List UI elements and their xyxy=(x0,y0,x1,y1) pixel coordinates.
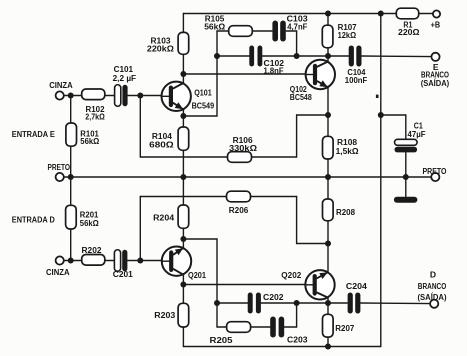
wire Q101 base to R106 vertical xyxy=(139,96,141,158)
wire Q101 collector to Q102 base xyxy=(183,73,306,75)
node ground rail C1 junction xyxy=(403,174,409,180)
resistor R104 xyxy=(178,127,189,150)
svg-text:R205: R205 xyxy=(210,335,233,345)
node Q102 collector junction xyxy=(325,53,331,59)
svg-text:12kΩ: 12kΩ xyxy=(338,30,357,40)
wire R106 riser link to Q102 emitter xyxy=(297,114,328,116)
svg-text:2,7kΩ: 2,7kΩ xyxy=(85,111,105,121)
svg-text:330kΩ: 330kΩ xyxy=(229,143,257,153)
node top rail R107 junction xyxy=(325,11,331,17)
node C103/C102 junction xyxy=(294,53,300,59)
transistor Q101 xyxy=(161,82,191,111)
wire input E to C101 xyxy=(64,95,115,97)
svg-text:C202: C202 xyxy=(263,292,284,302)
resistor R105 xyxy=(229,26,253,37)
node C203/C202 junction xyxy=(294,300,300,306)
svg-text:R206: R206 xyxy=(229,205,249,215)
svg-text:R203: R203 xyxy=(154,310,175,320)
svg-text:CINZA: CINZA xyxy=(49,80,72,90)
node Q101 collector junction xyxy=(180,71,186,77)
wire link to C1 xyxy=(381,114,406,116)
svg-text:C203: C203 xyxy=(287,334,308,344)
node ground rail R104/R204 junction xyxy=(180,174,186,180)
resistor R103 xyxy=(178,32,189,54)
svg-text:BRANCO: BRANCO xyxy=(418,281,447,291)
wire input D to C201 xyxy=(64,260,115,262)
node Q202 collector junction xyxy=(325,300,331,306)
terminal PRETO left xyxy=(56,173,64,181)
capacitor C101 xyxy=(115,85,128,107)
svg-text:CINZA: CINZA xyxy=(46,267,70,277)
node input D terminal junction xyxy=(68,258,74,264)
resistor R201 xyxy=(66,205,77,229)
terminal CINZA input D xyxy=(56,256,64,264)
resistor R106 xyxy=(228,152,252,163)
svg-text:BC548: BC548 xyxy=(290,92,312,102)
node Q102 emitter junction xyxy=(325,112,331,118)
terminal E BRANCO output xyxy=(431,53,439,61)
wire R106 riser xyxy=(296,115,298,157)
terminal D BRANCO output xyxy=(430,300,438,308)
resistor R205 xyxy=(227,322,251,333)
resistor R107 xyxy=(322,25,333,48)
svg-text:680Ω: 680Ω xyxy=(149,140,174,150)
svg-text:47µF: 47µF xyxy=(408,129,426,139)
node top rail +B feed junction xyxy=(378,11,384,17)
resistor R208 xyxy=(323,199,334,221)
svg-text:BC549: BC549 xyxy=(192,100,215,110)
svg-text:220Ω: 220Ω xyxy=(398,27,420,37)
wire Q102 collector node to C104 xyxy=(262,55,349,57)
ground bar xyxy=(394,197,418,203)
node +B feed / C1 junction xyxy=(378,112,384,118)
svg-text:(SAÍDA): (SAÍDA) xyxy=(418,292,447,302)
svg-text:56kΩ: 56kΩ xyxy=(204,21,225,31)
capacitor C201 xyxy=(114,250,127,272)
svg-text:56kΩ: 56kΩ xyxy=(80,136,99,146)
resistor R206 xyxy=(227,191,251,202)
wire R106 horizontal xyxy=(140,156,296,158)
wire main right vertical R107/R108/R208/R207 xyxy=(327,14,329,347)
node riser2/C202 junction xyxy=(214,300,220,306)
wire riser Q201 emitter network xyxy=(216,239,218,327)
svg-text:C201: C201 xyxy=(113,269,133,279)
resistor R204 xyxy=(178,205,189,228)
wire C103 riser xyxy=(296,31,298,56)
capacitor C103 xyxy=(272,21,285,42)
capacitor C204 xyxy=(348,293,361,314)
svg-text:C204: C204 xyxy=(346,281,367,291)
resistor R101 xyxy=(66,123,77,146)
wire Q201 emitter link xyxy=(183,238,217,240)
svg-text:ENTRADA E: ENTRADA E xyxy=(12,129,55,139)
svg-text:R208: R208 xyxy=(336,207,355,217)
resistor R202 xyxy=(82,255,105,266)
svg-text:56kΩ: 56kΩ xyxy=(80,218,99,228)
wire C104 to output E xyxy=(361,55,431,58)
wire Q202 collector node to C204 xyxy=(261,302,347,304)
node Q201 emitter junction xyxy=(180,236,186,242)
node Q202 emitter junction xyxy=(325,241,331,247)
wire C102 left lead xyxy=(217,55,249,57)
wire C1 bottom lead to ground bar xyxy=(405,152,407,198)
resistor R203 xyxy=(178,303,189,327)
svg-text:220kΩ: 220kΩ xyxy=(147,43,174,53)
capacitor C102 xyxy=(249,46,262,67)
svg-text:Q201: Q201 xyxy=(188,270,206,280)
svg-text:+B: +B xyxy=(431,19,441,29)
svg-text:4,7nF: 4,7nF xyxy=(287,21,307,31)
transistor Q102 xyxy=(305,60,335,89)
resistor R108 xyxy=(323,136,334,159)
node riser1/C102 junction xyxy=(214,53,220,59)
svg-text:PRETO: PRETO xyxy=(48,162,71,172)
svg-text:1,8nF: 1,8nF xyxy=(264,66,284,76)
wire R206 horizontal xyxy=(140,196,296,198)
svg-text:PRETO: PRETO xyxy=(423,166,447,176)
svg-text:ENTRADA D: ENTRADA D xyxy=(12,214,55,224)
node Q101 emitter junction xyxy=(180,113,186,119)
wire R206 riser xyxy=(296,197,298,244)
wire +B feed vertical xyxy=(380,14,382,347)
wire C202 node horizontal xyxy=(217,302,248,304)
node Q201 base junction xyxy=(137,258,143,264)
wire R206 riser link to Q202 emitter xyxy=(297,243,328,245)
resistor R102 xyxy=(82,89,105,100)
node Q201 collector junction xyxy=(180,282,186,288)
svg-text:Q202: Q202 xyxy=(281,270,301,280)
capacitor C202 xyxy=(248,293,261,314)
terminal PRETO right xyxy=(431,173,439,181)
svg-text:R207: R207 xyxy=(335,323,354,333)
capacitor C104 xyxy=(349,46,362,67)
node input E terminal junction xyxy=(68,93,74,99)
capacitor C203 xyxy=(270,317,284,338)
node bottom rail R207 junction xyxy=(325,344,331,350)
svg-text:Q101: Q101 xyxy=(194,87,212,97)
wire C1 top lead xyxy=(405,115,407,140)
wire C204 to output D xyxy=(361,302,431,305)
wire R105/C103 branch horizontal xyxy=(217,30,272,32)
svg-text:D: D xyxy=(430,269,436,279)
wire +B bottom rail xyxy=(183,346,380,348)
wire Q201 base to R206 vertical xyxy=(139,197,141,261)
svg-text:R202: R202 xyxy=(82,245,102,255)
svg-text:(SAÍDA): (SAÍDA) xyxy=(421,78,450,88)
wire C203 riser xyxy=(296,303,298,327)
svg-text:R204: R204 xyxy=(153,212,174,222)
svg-text:2,2 µF: 2,2 µF xyxy=(113,73,137,83)
wire C103 right lead xyxy=(286,30,296,32)
resistor R1 xyxy=(396,8,418,19)
wire Q101 emitter stub xyxy=(183,115,217,117)
wire PRETO ground rail xyxy=(64,176,432,178)
node Q101 base junction xyxy=(137,93,143,99)
node ground rail R108/R208 junction xyxy=(325,174,331,180)
wire main left vertical R103/R104/R204/R203 xyxy=(182,14,184,347)
wire riser Q101 emitter network xyxy=(216,31,218,116)
stray ink mark xyxy=(376,95,379,98)
capacitor C1 xyxy=(395,139,418,152)
wire Q201 collector to Q202 base xyxy=(183,284,306,286)
wire R205/C203 branch horizontal xyxy=(217,326,270,328)
transistor Q202 xyxy=(305,270,335,299)
transistor Q201 xyxy=(161,247,191,276)
node ground rail left junction xyxy=(68,174,74,180)
terminal CINZA input E xyxy=(56,91,64,99)
wire R101/R201 input divider vertical xyxy=(70,96,72,261)
svg-text:100nF: 100nF xyxy=(345,75,368,85)
resistor R207 xyxy=(323,314,334,337)
wire C201 to Q201 base xyxy=(127,260,164,262)
wire C203 right lead xyxy=(284,326,296,328)
terminal +B xyxy=(433,10,440,17)
wire +B top rail xyxy=(183,13,433,15)
svg-text:1,5kΩ: 1,5kΩ xyxy=(336,146,359,156)
wire C101 to Q101 base xyxy=(127,95,164,97)
